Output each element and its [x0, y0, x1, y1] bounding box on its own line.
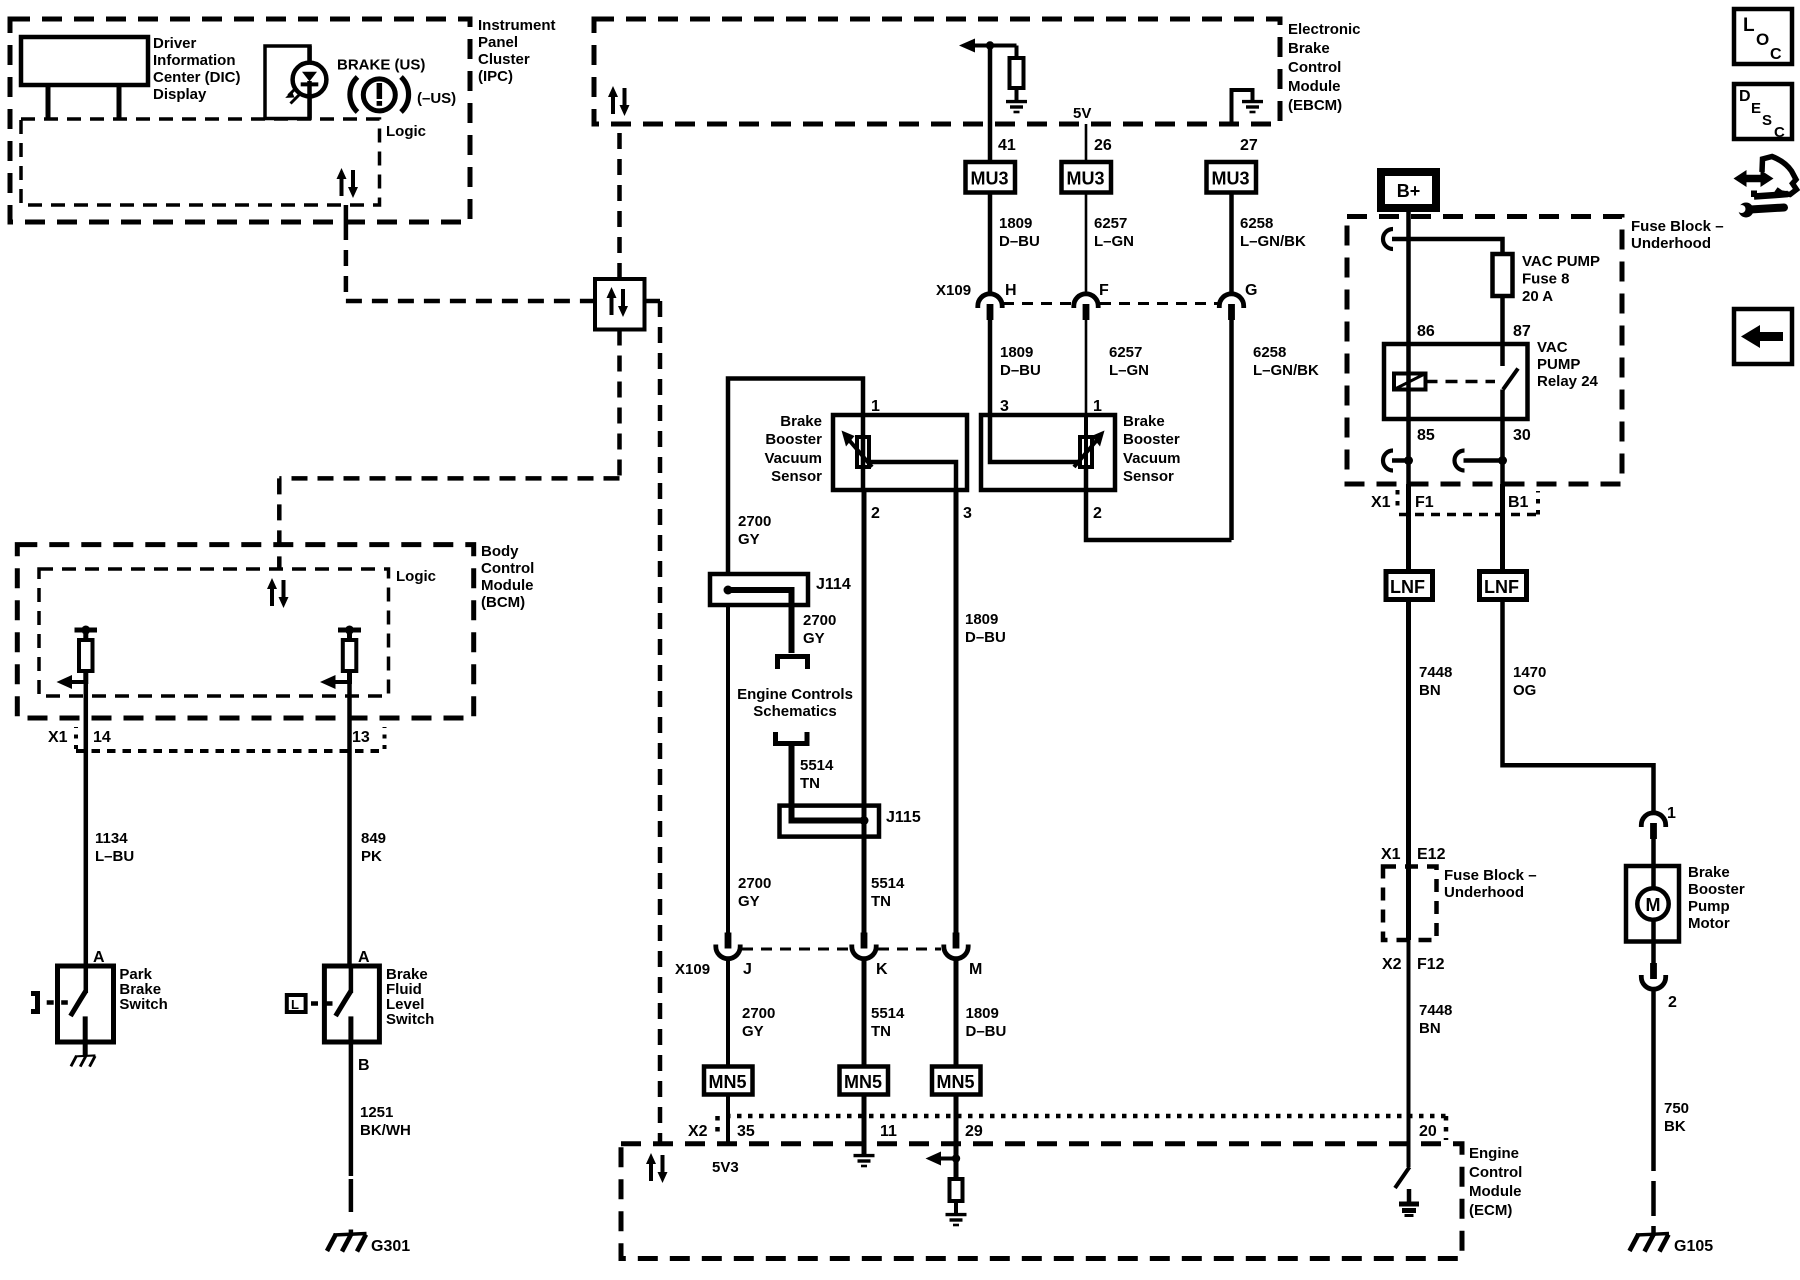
svg-text:GY: GY — [803, 630, 825, 647]
svg-text:Sensor: Sensor — [771, 468, 822, 485]
wire: BCM pin 14 down — [84, 682, 89, 966]
wire: B+ branch to fuse — [1392, 239, 1503, 254]
battery feed B+ box — [1381, 172, 1436, 208]
connector clip (pin 30) — [1455, 451, 1465, 471]
module box: Engine Control Module (ECM) — [621, 1144, 1462, 1259]
wire: J115 branch thick — [792, 818, 865, 821]
serial data arrows (IPC) — [337, 168, 359, 198]
module box: Electronic Brake Control Module (EBCM) — [594, 19, 1280, 124]
wire: 1809 D-BU sensor pin3 to X109 M — [954, 490, 959, 936]
svg-text:1809: 1809 — [965, 611, 998, 628]
wire: BCM pin 13 down — [347, 682, 352, 966]
svg-text:X109: X109 — [936, 282, 971, 299]
wire: 5514 TN sensor pin2 to X109 K — [862, 490, 867, 936]
wire: right sensor pin 2 loop to 6258 — [1086, 467, 1232, 540]
LED diode triangle — [302, 72, 317, 82]
svg-text:6257: 6257 — [1094, 215, 1127, 232]
svg-text:OG: OG — [1513, 682, 1536, 699]
relay coil — [1394, 374, 1426, 390]
svg-text:13: 13 — [352, 729, 370, 746]
svg-text:750: 750 — [1664, 1100, 1689, 1117]
svg-text:Fuse Block –: Fuse Block – — [1631, 218, 1724, 235]
svg-text:2: 2 — [871, 505, 880, 522]
wire: MN5 to ECM pin 35 — [726, 1095, 730, 1144]
junction dot J115 — [860, 816, 869, 825]
svg-text:E: E — [1751, 100, 1761, 117]
wire: blade to ground stub (ECM pin 20) — [1407, 1189, 1412, 1202]
svg-text:Booster: Booster — [1688, 881, 1745, 898]
svg-text:1134: 1134 — [95, 830, 128, 847]
connector X1 row (BCM) — [74, 727, 78, 749]
mechanical link dashes (park brake) — [47, 1000, 68, 1005]
wire: motor to connector 2 — [1651, 942, 1656, 964]
icon: harness routing (vehicle with arrows and wrench) — [1744, 175, 1763, 183]
svg-text:Control: Control — [1469, 1164, 1522, 1181]
park brake switch blade — [71, 991, 86, 1016]
wire: left sensor internal to pin 3 — [869, 462, 956, 490]
off-page connector top (to Engine Controls) — [778, 657, 808, 670]
svg-text:C: C — [1770, 46, 1782, 63]
connector LNF (1470) — [1480, 572, 1527, 600]
svg-text:L–GN: L–GN — [1109, 362, 1149, 379]
brake warning indicator icon circle — [363, 79, 395, 111]
connector MU3 (pin 27) — [1207, 162, 1257, 193]
svg-text:X1: X1 — [48, 729, 68, 746]
wire: F1 to LNF — [1406, 484, 1411, 572]
connector X109 cavity H — [978, 294, 1002, 320]
svg-text:D–BU: D–BU — [965, 629, 1006, 646]
svg-text:Engine Controls: Engine Controls — [737, 686, 853, 703]
connector X109 cavity M — [944, 933, 968, 959]
wire: to EBCM pull-up resistor — [1015, 46, 1019, 59]
wire: serial data dashed junction to EBCM — [617, 124, 622, 279]
svg-text:Motor: Motor — [1688, 915, 1730, 932]
svg-text:Body: Body — [481, 543, 519, 560]
wire: connector 1 to motor — [1651, 838, 1656, 866]
wire: serial data dashed IPC down — [344, 224, 349, 301]
wire: resistor to junction left — [83, 671, 88, 684]
brake fluid level switch blade — [336, 991, 351, 1016]
svg-text:87: 87 — [1513, 323, 1531, 340]
brake fluid level switch lower contact — [348, 1016, 353, 1042]
wire: left sensor pin1 loop to 2700 GY — [728, 379, 863, 575]
wire: terminal to resistor right — [347, 630, 352, 640]
sensor wiper arrow (right) — [1074, 440, 1097, 467]
svg-text:Underhood: Underhood — [1444, 884, 1524, 901]
svg-text:X1: X1 — [1381, 846, 1401, 863]
svg-text:J114: J114 — [816, 576, 851, 593]
brake fluid level switch S2 box — [324, 966, 379, 1042]
svg-text:Panel: Panel — [478, 34, 518, 51]
svg-text:G105: G105 — [1674, 1238, 1713, 1255]
relay K1: VAC PUMP Relay 24 box — [1384, 344, 1528, 419]
wire: 6257 L-GN to X109 F — [1085, 193, 1088, 295]
svg-text:Relay 24: Relay 24 — [1537, 373, 1599, 390]
ground (EBCM internal, pin 27 net) — [1242, 102, 1263, 112]
brake icon exclamation — [377, 83, 383, 99]
wire: 7448 BN through fuse block — [1406, 867, 1411, 941]
wire: serial data dashed BCM down — [277, 478, 282, 569]
ground (ECM internal, pin 29 net) — [946, 1215, 967, 1225]
svg-text:2: 2 — [1668, 994, 1677, 1011]
splice pack J115 box — [780, 806, 880, 837]
serial data arrows (BCM) — [267, 578, 289, 608]
off-page connector bottom (from Engine Controls) — [776, 732, 808, 744]
svg-text:Switch: Switch — [119, 996, 167, 1013]
svg-text:Booster: Booster — [765, 431, 822, 448]
wire: motor leads — [1651, 866, 1656, 942]
svg-text:Brake: Brake — [1288, 40, 1330, 57]
svg-text:GY: GY — [742, 1023, 764, 1040]
wire: resistor to ground stub — [1015, 88, 1019, 101]
logic box (BCM) — [39, 569, 389, 696]
svg-text:1809: 1809 — [999, 215, 1032, 232]
ground stub (ECM pin 11 net) — [862, 1144, 867, 1155]
connector MN5 (pin 35) — [704, 1067, 753, 1095]
ground (EBCM internal, pin 41 net) — [1006, 102, 1027, 112]
wire: dashed to G105 — [1651, 1181, 1656, 1216]
svg-text:Fuse 8: Fuse 8 — [1522, 271, 1570, 288]
svg-text:GY: GY — [738, 893, 760, 910]
ECM internal switch blade (pin 20) — [1395, 1167, 1410, 1188]
resistor (ECM pull-up pin 29 net) — [950, 1179, 963, 1201]
svg-text:Instrument: Instrument — [478, 17, 556, 34]
icon: back arrow button — [1734, 309, 1792, 364]
wire: 750 BK down — [1651, 990, 1656, 1171]
wire: 7448 BN down — [1406, 600, 1411, 867]
module box: Body Control Module (BCM) — [17, 545, 473, 718]
svg-text:2700: 2700 — [738, 875, 771, 892]
svg-text:1470: 1470 — [1513, 664, 1546, 681]
wire: 1470 OG down and over — [1503, 600, 1654, 814]
connector pin 2 (pump motor) — [1641, 963, 1665, 989]
connector MN5 (pin 11) — [840, 1067, 889, 1095]
connector X109 cavity J — [716, 933, 740, 959]
svg-text:Sensor: Sensor — [1123, 468, 1174, 485]
svg-text:MN5: MN5 — [709, 1072, 747, 1092]
wire: 5514 TN from off-page to J115 — [789, 744, 795, 821]
svg-text:D: D — [1739, 88, 1751, 105]
wire: 1809 D-BU X109 H to sensor pin 3 — [988, 318, 993, 415]
svg-text:1: 1 — [1093, 398, 1102, 415]
svg-text:1251: 1251 — [360, 1104, 393, 1121]
svg-text:D–BU: D–BU — [1000, 362, 1041, 379]
connector X109 cavity F — [1074, 294, 1098, 320]
svg-text:29: 29 — [965, 1123, 983, 1140]
svg-text:2700: 2700 — [738, 513, 771, 530]
LED light arrow 1 — [289, 88, 297, 96]
wire: serial data dashed to BCM horizontal — [279, 476, 619, 481]
svg-text:B+: B+ — [1397, 181, 1421, 201]
connector X109 cavity K — [852, 933, 876, 959]
svg-text:L–GN/BK: L–GN/BK — [1240, 233, 1306, 250]
svg-text:85: 85 — [1417, 427, 1435, 444]
wire: 1251 BK/WH down — [349, 1042, 354, 1176]
brake booster vacuum sensor B1 box (left) — [833, 415, 967, 490]
svg-text:Vacuum: Vacuum — [1123, 450, 1181, 467]
svg-text:2: 2 — [1093, 505, 1102, 522]
svg-text:Underhood: Underhood — [1631, 235, 1711, 252]
svg-text:(–US): (–US) — [417, 90, 456, 107]
connector row X109 bottom dashed — [742, 948, 849, 951]
splice pack J114 box — [710, 574, 808, 605]
svg-text:5514: 5514 — [800, 757, 834, 774]
svg-text:1: 1 — [871, 398, 880, 415]
svg-text:Vacuum: Vacuum — [764, 450, 822, 467]
svg-text:F12: F12 — [1417, 956, 1445, 973]
logic box (IPC) — [21, 119, 380, 205]
svg-text:5514: 5514 — [871, 875, 905, 892]
svg-text:7448: 7448 — [1419, 1002, 1452, 1019]
wire: B1 to LNF — [1500, 484, 1505, 572]
svg-text:27: 27 — [1240, 137, 1258, 154]
wire: DIC display right leg — [117, 85, 122, 119]
svg-text:(ECM): (ECM) — [1469, 1202, 1512, 1219]
svg-text:C: C — [1774, 124, 1785, 141]
svg-text:MU3: MU3 — [1067, 169, 1105, 189]
park brake switch S1 box — [58, 966, 114, 1042]
svg-text:Brake: Brake — [1688, 864, 1730, 881]
svg-text:F: F — [1099, 282, 1109, 299]
svg-text:PUMP: PUMP — [1537, 356, 1580, 373]
relay switch blade — [1503, 369, 1518, 390]
wire: resistor to ground (ECM) — [954, 1201, 958, 1214]
resistor (BCM pull-up left) — [79, 640, 93, 671]
wire: pin A into fluid switch — [349, 966, 354, 993]
park brake actuator bracket — [31, 994, 38, 1012]
svg-text:14: 14 — [93, 729, 111, 746]
wire: resistor to junction right — [347, 671, 352, 684]
wire: 6257 L-GN X109 F to sensor pin 1 — [1085, 318, 1088, 415]
svg-text:Switch: Switch — [386, 1011, 434, 1028]
svg-text:41: 41 — [998, 137, 1016, 154]
svg-text:TN: TN — [871, 893, 891, 910]
svg-text:MN5: MN5 — [937, 1072, 975, 1092]
fuse block pass-through dashed box — [1383, 867, 1437, 941]
serial data arrows (junction box) — [607, 287, 629, 317]
resistor (EBCM pull-up) — [1010, 58, 1024, 88]
connector row X109 top dashed — [1003, 302, 1073, 305]
svg-text:MU3: MU3 — [1212, 169, 1250, 189]
svg-text:BN: BN — [1419, 1020, 1441, 1037]
ground (ECM internal, pin 11 net) — [854, 1156, 875, 1166]
svg-text:G301: G301 — [371, 1238, 410, 1255]
svg-text:30: 30 — [1513, 427, 1531, 444]
svg-text:S: S — [1762, 112, 1772, 129]
brake booster vacuum sensor B2 box (right) — [981, 415, 1115, 490]
svg-text:20 A: 20 A — [1522, 288, 1553, 305]
svg-text:1809: 1809 — [966, 1005, 999, 1022]
svg-text:(BCM): (BCM) — [481, 594, 525, 611]
svg-text:Control: Control — [481, 560, 534, 577]
BCM signal arrow right — [335, 680, 351, 684]
wire: serial data dashed junction box right — [645, 299, 661, 304]
svg-text:1: 1 — [1667, 805, 1676, 822]
svg-text:J: J — [743, 961, 752, 978]
svg-text:K: K — [876, 961, 888, 978]
svg-text:O: O — [1756, 30, 1769, 49]
svg-text:Electronic: Electronic — [1288, 21, 1361, 38]
svg-text:Engine: Engine — [1469, 1145, 1519, 1162]
svg-text:B1: B1 — [1508, 494, 1529, 511]
svg-text:Pump: Pump — [1688, 898, 1730, 915]
BCM input terminal bar (pin 14 circuit) — [75, 628, 98, 633]
brake icon left paren arc — [350, 77, 358, 112]
svg-text:849: 849 — [361, 830, 386, 847]
svg-text:G: G — [1245, 282, 1257, 299]
svg-text:D–BU: D–BU — [999, 233, 1040, 250]
connector X1 F1/B1 dotted box — [1396, 490, 1400, 512]
chassis ground (park brake switch) — [71, 1055, 95, 1066]
svg-text:X2: X2 — [688, 1123, 708, 1140]
svg-text:3: 3 — [1000, 398, 1009, 415]
svg-text:PK: PK — [361, 848, 382, 865]
wire: 6258 L-GN/BK to X109 G — [1229, 193, 1234, 295]
svg-text:Logic: Logic — [386, 123, 426, 140]
svg-text:BK/WH: BK/WH — [360, 1122, 411, 1139]
svg-text:Module: Module — [481, 577, 534, 594]
svg-text:MN5: MN5 — [844, 1072, 882, 1092]
serial data junction box — [595, 279, 645, 330]
svg-text:26: 26 — [1094, 137, 1112, 154]
connector clip (pin 85) — [1383, 451, 1393, 471]
svg-text:A: A — [93, 949, 105, 966]
svg-text:B: B — [358, 1057, 370, 1074]
svg-text:6258: 6258 — [1253, 344, 1286, 361]
wire: 1809 D-BU X109 M to MN5 — [954, 959, 959, 1067]
wire: LED lower lead — [307, 81, 312, 96]
brake icon right paren arc — [401, 77, 409, 112]
svg-text:BRAKE (US): BRAKE (US) — [337, 57, 425, 74]
wire: fuse to relay pin 87 — [1500, 296, 1505, 366]
BCM input terminal bar (pin 13 circuit) — [338, 628, 361, 633]
relay link dashed — [1426, 380, 1496, 384]
sensor element resistor (right) — [1080, 437, 1092, 467]
svg-text:2700: 2700 — [742, 1005, 775, 1022]
svg-text:2700: 2700 — [803, 612, 836, 629]
wire: DIC display left leg — [46, 85, 51, 119]
svg-text:BN: BN — [1419, 682, 1441, 699]
resistor (BCM pull-up right) — [343, 640, 357, 671]
wire: 5514 TN X109 K to MN5 — [862, 959, 867, 1067]
svg-text:X2: X2 — [1382, 956, 1402, 973]
svg-text:BK: BK — [1664, 1118, 1686, 1135]
connector MU3 (pin 26) — [1062, 162, 1112, 193]
BCM signal arrow left — [71, 680, 87, 684]
svg-text:MU3: MU3 — [971, 169, 1009, 189]
wire: right sensor pin3 internal — [990, 415, 1080, 462]
svg-text:TN: TN — [800, 775, 820, 792]
indicator LED D1 circle — [293, 63, 327, 97]
svg-text:A: A — [358, 949, 370, 966]
icon: DESC button — [1734, 84, 1792, 139]
svg-text:11: 11 — [880, 1123, 897, 1140]
connector MN5 (pin 29) — [932, 1067, 981, 1095]
svg-text:TN: TN — [871, 1023, 891, 1040]
junction dot pin29 net — [952, 1154, 960, 1162]
wire: EBCM pin 41 — [988, 46, 993, 163]
svg-text:E12: E12 — [1417, 846, 1446, 863]
ground (ECM internal, pin 20 net) — [1399, 1202, 1419, 1207]
svg-text:(EBCM): (EBCM) — [1288, 97, 1342, 114]
svg-text:5V3: 5V3 — [712, 1159, 739, 1176]
wire: EBCM pin 26 (5V) — [1085, 124, 1088, 162]
serial data arrows (ECM) — [646, 1153, 668, 1183]
svg-text:L–BU: L–BU — [95, 848, 134, 865]
svg-text:L: L — [1743, 15, 1755, 36]
svg-text:Brake: Brake — [780, 413, 822, 430]
svg-text:GY: GY — [738, 531, 760, 548]
svg-text:L–GN/BK: L–GN/BK — [1253, 362, 1319, 379]
svg-text:VAC: VAC — [1537, 339, 1568, 356]
fluid level sensor float box — [287, 995, 306, 1012]
wire: 1809 D-BU to X109 H — [988, 193, 993, 295]
wire: 7448 BN to ECM pin 20 — [1407, 940, 1411, 1167]
LED diode crossbar — [301, 82, 319, 86]
wire: pin A into switch — [84, 966, 89, 993]
sensor wiper arrow (left) — [849, 440, 872, 467]
svg-text:D–BU: D–BU — [966, 1023, 1007, 1040]
EBCM internal ground hook (pin 27 net) — [1232, 90, 1253, 124]
svg-text:Driver: Driver — [153, 35, 197, 52]
connector LNF (7448) — [1386, 572, 1433, 600]
brake booster pump motor M1 box — [1626, 866, 1679, 942]
connector X2 row (ECM) dotted — [715, 1116, 720, 1138]
svg-text:Brake: Brake — [1123, 413, 1165, 430]
svg-text:Control: Control — [1288, 59, 1341, 76]
svg-text:Logic: Logic — [396, 568, 436, 585]
svg-text:Center (DIC): Center (DIC) — [153, 69, 241, 86]
svg-text:6258: 6258 — [1240, 215, 1273, 232]
wire: switch to chassis ground stub — [83, 1042, 88, 1057]
svg-text:LNF: LNF — [1390, 577, 1425, 597]
junction dot J114 — [724, 586, 733, 595]
svg-text:1809: 1809 — [1000, 344, 1033, 361]
svg-text:Fuse Block –: Fuse Block – — [1444, 867, 1537, 884]
icon: LOC button — [1734, 9, 1792, 64]
svg-text:Schematics: Schematics — [753, 703, 836, 720]
wire: dashed to G301 — [349, 1179, 354, 1212]
svg-text:6257: 6257 — [1109, 344, 1142, 361]
wire: 2700 GY through J114 down to X109 J — [726, 605, 730, 936]
wire: relay pin 30 internal — [1500, 390, 1505, 420]
module box: Instrument Panel Cluster (IPC) — [10, 19, 470, 222]
svg-text:7448: 7448 — [1419, 664, 1452, 681]
connector X109 cavity G — [1219, 294, 1243, 320]
svg-text:Cluster: Cluster — [478, 51, 530, 68]
wire: MN5 to ECM pin 11 — [862, 1095, 867, 1156]
serial data arrows (EBCM) — [608, 86, 630, 116]
display: Driver Information Center (DIC) Display — [21, 37, 148, 85]
ground G301 — [327, 1234, 367, 1252]
fuse: VAC PUMP Fuse 8 20A — [1493, 254, 1513, 296]
wire: serial data dashed down to ECM — [658, 301, 663, 1144]
svg-text:M: M — [969, 961, 982, 978]
svg-text:L: L — [291, 997, 299, 1012]
wire: 6258 L-GN/BK X109 G down to loop — [1229, 318, 1234, 540]
svg-text:5514: 5514 — [871, 1005, 905, 1022]
svg-text:X1: X1 — [1371, 494, 1391, 511]
park brake switch lower contact — [83, 1016, 88, 1042]
svg-text:H: H — [1005, 282, 1017, 299]
svg-text:L–GN: L–GN — [1094, 233, 1134, 250]
motor circle — [1637, 888, 1668, 919]
svg-text:Module: Module — [1288, 78, 1341, 95]
mechanical link dashes (fluid level) — [311, 1001, 333, 1006]
svg-text:(IPC): (IPC) — [478, 68, 513, 85]
junction dot pin41 net — [986, 41, 994, 49]
svg-text:LNF: LNF — [1484, 577, 1519, 597]
